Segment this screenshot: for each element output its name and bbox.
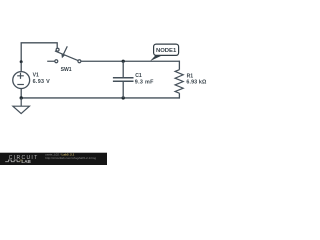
svg-text:6.93 kΩ: 6.93 kΩ bbox=[186, 80, 207, 86]
voltage source V1 lead top bbox=[20, 62, 22, 72]
wire switch drop bbox=[56, 42, 58, 48]
svg-text:http://circuitlab.com/c/tag/la: http://circuitlab.com/c/tag/lab5-2-1/img bbox=[45, 156, 96, 160]
watermark squarewave bbox=[5, 160, 20, 162]
switch toggle arrow bbox=[63, 46, 67, 54]
svg-text:6.93 V: 6.93 V bbox=[33, 79, 50, 85]
svg-text:C1: C1 bbox=[135, 73, 142, 79]
svg-text:NODE1: NODE1 bbox=[156, 48, 177, 54]
ground symbol bbox=[13, 98, 30, 114]
svg-text:LAB: LAB bbox=[21, 159, 31, 164]
watermark bar bbox=[0, 153, 107, 165]
resistor R1 lead top bbox=[178, 61, 180, 70]
svg-text:V1: V1 bbox=[33, 73, 39, 79]
switch SW1 bbox=[47, 46, 81, 62]
wire right rail bbox=[81, 60, 179, 62]
capacitor C1 lead top bbox=[122, 61, 124, 77]
voltage source V1 minus sign bbox=[17, 84, 24, 86]
wire bottom rail bbox=[21, 97, 179, 99]
switch throw-A terminal circle bbox=[56, 48, 59, 51]
svg-text:SW1: SW1 bbox=[61, 67, 72, 73]
voltage source V1 plus sign bbox=[17, 73, 24, 79]
switch toggle arrowhead bbox=[61, 54, 65, 59]
node flag NODE1 box bbox=[154, 44, 179, 55]
node flag NODE1 tail bbox=[150, 55, 162, 61]
resistor R1 lead bottom bbox=[178, 93, 180, 98]
junction dot top of C1 bbox=[122, 60, 125, 63]
wire top-left vertical from V1 bbox=[20, 43, 22, 63]
junction dot bottom of C1 bbox=[122, 96, 125, 99]
voltage source V1 circle bbox=[13, 72, 30, 89]
capacitor C1 lead bottom bbox=[122, 82, 124, 98]
node V1 top terminal dot bbox=[20, 60, 23, 63]
watermark yellow pulse bbox=[20, 160, 22, 162]
capacitor C1 plates bbox=[113, 78, 134, 82]
junction dot ground bbox=[20, 96, 23, 99]
switch throw-B stub bbox=[47, 60, 55, 62]
voltage source V1 lead bottom bbox=[20, 88, 22, 98]
switch pole terminal circle bbox=[78, 60, 81, 63]
switch throw-B terminal circle bbox=[55, 60, 58, 63]
switch lever bbox=[55, 51, 78, 61]
resistor R1 zigzag bbox=[175, 70, 183, 94]
svg-text:9.3 mF: 9.3 mF bbox=[135, 79, 154, 85]
wire top-left horizontal rail bbox=[21, 42, 57, 44]
